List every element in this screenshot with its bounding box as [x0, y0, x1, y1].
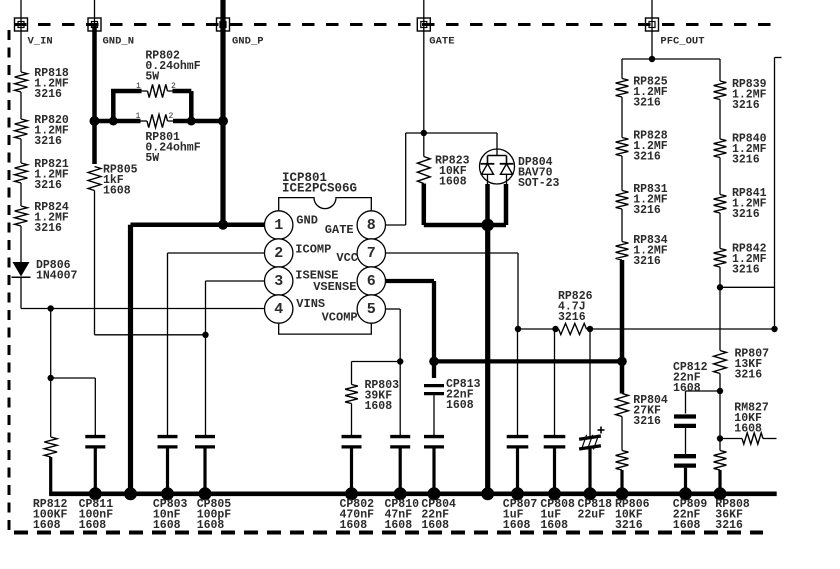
wire: [51, 378, 96, 436]
capacitor CP804: [424, 437, 444, 494]
op-amp U1 controller ICP801 ICE2PCS06G: [265, 171, 386, 334]
svg-text:1608: 1608: [103, 185, 131, 198]
capacitor CP807: [507, 437, 529, 494]
svg-text:1608: 1608: [340, 519, 368, 532]
wire: [517, 329, 519, 436]
wire GND_P (thick): [220, 25, 225, 225]
node: [109, 117, 118, 126]
wire: [621, 156, 623, 191]
svg-text:2: 2: [171, 82, 176, 91]
wire GND_P stub above (thick): [220, 0, 225, 25]
wire: [719, 374, 721, 392]
wire clamp to ground (thick): [485, 225, 490, 494]
node rail junction: [679, 487, 692, 500]
node ISENSE junction: [202, 332, 208, 338]
wire: [719, 213, 721, 249]
node: [717, 388, 723, 394]
svg-text:4: 4: [274, 301, 283, 318]
wire: [719, 439, 721, 451]
value label RP806: [615, 498, 650, 532]
wire GND_N to GND_P (thick): [95, 119, 224, 124]
resistor RP834: [616, 234, 668, 268]
node rail junction: [345, 487, 358, 500]
svg-text:3: 3: [274, 273, 283, 290]
svg-text:3216: 3216: [633, 415, 661, 428]
wire: [621, 209, 623, 242]
port PFC_OUT: [646, 18, 705, 48]
wire: [20, 92, 22, 119]
svg-text:3216: 3216: [633, 97, 661, 110]
resistor RP820: [15, 114, 69, 148]
resistor RP839: [714, 78, 767, 112]
node VCOMP branch: [397, 358, 403, 364]
svg-text:1608: 1608: [734, 423, 762, 436]
resistor RP806: [616, 451, 629, 494]
value label CP807: [503, 498, 538, 532]
svg-text:ICE2PCS06G: ICE2PCS06G: [282, 182, 357, 196]
svg-text:GND: GND: [296, 214, 318, 228]
node GATE clamp junction: [481, 219, 494, 232]
value label CP808: [540, 498, 575, 532]
svg-text:1: 1: [274, 217, 283, 234]
svg-text:3216: 3216: [633, 204, 661, 217]
value label CP803: [153, 498, 188, 532]
node rail junction: [714, 487, 727, 500]
svg-text:GATE: GATE: [429, 36, 454, 48]
svg-text:1608: 1608: [33, 519, 61, 532]
svg-text:GATE: GATE: [325, 223, 354, 237]
capacitor CP818 (electrolytic): [579, 427, 604, 494]
svg-text:1608: 1608: [446, 399, 474, 412]
node: [717, 284, 723, 290]
resistor RP801: [145, 114, 200, 165]
wire DP804 anodes (thick): [488, 184, 507, 225]
wire: [399, 362, 401, 437]
wire GND_N (thick): [92, 25, 97, 165]
wire: [686, 391, 721, 414]
svg-text:VCC: VCC: [336, 251, 358, 265]
node VINS branch: [48, 305, 54, 311]
svg-text:2: 2: [274, 245, 283, 262]
svg-text:VINS: VINS: [296, 297, 325, 311]
wire: [719, 287, 721, 350]
resistor RP824: [15, 201, 69, 235]
svg-text:3216: 3216: [732, 99, 760, 112]
svg-text:1N4007: 1N4007: [36, 270, 78, 283]
node: [617, 357, 627, 367]
svg-text:2: 2: [169, 112, 174, 121]
svg-text:3216: 3216: [633, 255, 661, 268]
wire PFC_OUT top: [622, 59, 720, 81]
svg-text:5W: 5W: [145, 71, 159, 84]
svg-text:3216: 3216: [615, 519, 643, 532]
wire GND bus (thick): [131, 225, 224, 494]
svg-text:3216: 3216: [732, 264, 760, 277]
capacitor CP805: [195, 437, 215, 494]
wire VCC: [385, 253, 518, 329]
pin number 1 of RP802: [136, 82, 141, 91]
svg-text:1608: 1608: [197, 519, 225, 532]
wire GATE stub: [423, 0, 425, 133]
svg-text:ICOMP: ICOMP: [295, 243, 331, 257]
svg-text:PFC_OUT: PFC_OUT: [660, 36, 704, 48]
capacitor CP803: [158, 437, 178, 494]
node: [187, 117, 196, 126]
diode DP806: [12, 259, 78, 283]
wire: [554, 329, 556, 436]
svg-text:1608: 1608: [540, 519, 568, 532]
value label CP805: [197, 498, 232, 532]
svg-text:1608: 1608: [439, 176, 467, 189]
wire RP802 branch (thick staple): [111, 91, 191, 121]
wire: [50, 378, 52, 437]
capacitor CP812: [673, 361, 708, 426]
pin number 2 of RP802: [171, 82, 176, 91]
resistor RP826: [558, 290, 593, 335]
wire: [621, 417, 623, 451]
svg-text:5W: 5W: [145, 152, 159, 165]
wire: [20, 183, 22, 206]
svg-text:1608: 1608: [421, 519, 449, 532]
port V_IN: [15, 18, 53, 48]
resistor RM827: [720, 402, 777, 445]
value label CP804: [421, 498, 456, 532]
port GND_P: [217, 18, 264, 48]
wire ISENSE: [206, 281, 265, 436]
svg-text:1608: 1608: [365, 400, 393, 413]
svg-text:GND_N: GND_N: [103, 36, 135, 48]
node rail junction: [548, 487, 561, 500]
resistor RP812: [44, 437, 57, 494]
wire: [685, 428, 687, 454]
wire: [424, 133, 497, 149]
svg-text:6: 6: [367, 273, 376, 290]
capacitor CP802: [342, 437, 362, 494]
svg-text:3216: 3216: [715, 519, 743, 532]
pin number 1 of RP801: [136, 112, 141, 121]
node rail junction: [511, 487, 524, 500]
wire: [20, 139, 22, 163]
svg-text:3216: 3216: [558, 311, 586, 324]
svg-text:VSENSE: VSENSE: [313, 280, 356, 294]
port GATE: [417, 18, 454, 48]
resistor RP831: [616, 183, 668, 217]
svg-text:3216: 3216: [732, 154, 760, 167]
wire ICOMP: [168, 253, 265, 436]
node GND tee: [218, 220, 228, 230]
wire: [719, 100, 721, 140]
resistor RP804: [616, 394, 668, 429]
resistor RP821: [15, 158, 69, 192]
svg-text:22uF: 22uF: [578, 509, 606, 522]
wire GND_N stub above: [94, 0, 96, 25]
svg-text:1608: 1608: [385, 519, 413, 532]
svg-text:1608: 1608: [673, 519, 701, 532]
wire VSENSE (thick): [385, 281, 622, 361]
node rail junction: [481, 487, 494, 500]
node: [90, 116, 100, 126]
wire: [351, 404, 353, 437]
wire: [20, 277, 22, 308]
value label RP812: [33, 498, 68, 532]
node: [429, 357, 439, 367]
wire: [94, 191, 96, 335]
capacitor CP808: [544, 437, 566, 494]
wire: [719, 391, 721, 439]
wire RP823 bottom (thick): [424, 184, 506, 226]
wire (thick stub): [432, 361, 436, 378]
wire GND to pin1 (thick): [223, 222, 265, 227]
wire: [433, 395, 435, 436]
node rail junction: [89, 487, 102, 500]
svg-text:3216: 3216: [633, 151, 661, 164]
node rail junction: [584, 487, 597, 500]
value label RP808: [715, 498, 750, 532]
svg-text:V_IN: V_IN: [28, 36, 53, 48]
node rail junction: [161, 487, 174, 500]
wire VINS net: [21, 308, 265, 310]
resistor RP807: [714, 348, 770, 382]
wire: [589, 329, 591, 437]
node rail junction: [428, 487, 441, 500]
wire: [719, 267, 721, 287]
wire: [20, 226, 22, 262]
wire PFC_OUT stub: [651, 0, 653, 59]
svg-text:3216: 3216: [34, 135, 62, 148]
wire V_IN stub: [20, 0, 22, 72]
wire: [720, 286, 775, 288]
svg-text:3216: 3216: [34, 222, 62, 235]
wire: [50, 309, 52, 379]
node: [771, 326, 777, 332]
node: [552, 326, 558, 332]
resistor RP808: [714, 451, 727, 494]
svg-text:3216: 3216: [34, 179, 62, 192]
svg-text:GND_P: GND_P: [232, 36, 264, 48]
resistor RP828: [616, 130, 668, 164]
svg-text:VCOMP: VCOMP: [322, 311, 358, 325]
wire: [385, 133, 424, 225]
resistor RP841: [714, 187, 767, 221]
wire: [621, 97, 623, 138]
svg-text:3216: 3216: [732, 208, 760, 221]
svg-text:SOT-23: SOT-23: [518, 177, 560, 190]
svg-text:8: 8: [367, 217, 376, 234]
capacitor CP813: [424, 378, 481, 412]
resistor RP842: [714, 243, 767, 277]
node: [515, 326, 521, 332]
resistor RP823: [417, 133, 469, 189]
wire VCOMP: [385, 309, 400, 362]
diode DP804 (BAV70 dual): [480, 149, 560, 190]
node rail junction: [394, 487, 407, 500]
node: [218, 116, 228, 126]
resistor RP840: [714, 133, 767, 167]
svg-text:1608: 1608: [503, 519, 531, 532]
node: [48, 375, 54, 381]
svg-text:1608: 1608: [673, 382, 701, 395]
wire: [95, 334, 206, 336]
svg-text:3216: 3216: [34, 88, 62, 101]
resistor RP825: [616, 76, 668, 110]
node rail junction: [124, 487, 137, 500]
value label CP802: [340, 498, 375, 532]
svg-text:5: 5: [367, 301, 376, 318]
ground rail (thick): [49, 491, 777, 496]
node: [649, 56, 655, 62]
value label CP809: [673, 498, 708, 532]
node rail junction: [199, 487, 212, 500]
wire ladder1 bottom (thick): [620, 260, 625, 394]
capacitor CP809: [674, 456, 696, 493]
value label CP818: [578, 498, 613, 522]
value label CP811: [79, 498, 114, 532]
capacitor CP811: [85, 437, 105, 494]
value label CP810: [385, 498, 420, 532]
svg-text:1608: 1608: [153, 519, 181, 532]
svg-text:1: 1: [136, 82, 141, 91]
node: [587, 326, 593, 332]
resistor RP802: [145, 50, 200, 98]
svg-text:7: 7: [367, 245, 376, 262]
resistor RP803: [345, 379, 399, 413]
resistor RP818: [15, 67, 69, 101]
node GATE junction: [421, 130, 427, 136]
svg-text:1: 1: [136, 112, 141, 121]
wire: [352, 362, 401, 385]
svg-text:3216: 3216: [735, 369, 763, 382]
pin number 2 of RP801: [169, 112, 174, 121]
wire VCC off-page: [775, 58, 782, 330]
wire VCC rail: [518, 328, 775, 330]
capacitor CP810: [390, 437, 410, 494]
resistor RP805: [88, 164, 138, 198]
node rail junction: [616, 487, 629, 500]
node: [717, 435, 723, 441]
wire: [719, 158, 721, 195]
svg-text:1608: 1608: [79, 519, 107, 532]
port GND_N: [88, 18, 134, 48]
